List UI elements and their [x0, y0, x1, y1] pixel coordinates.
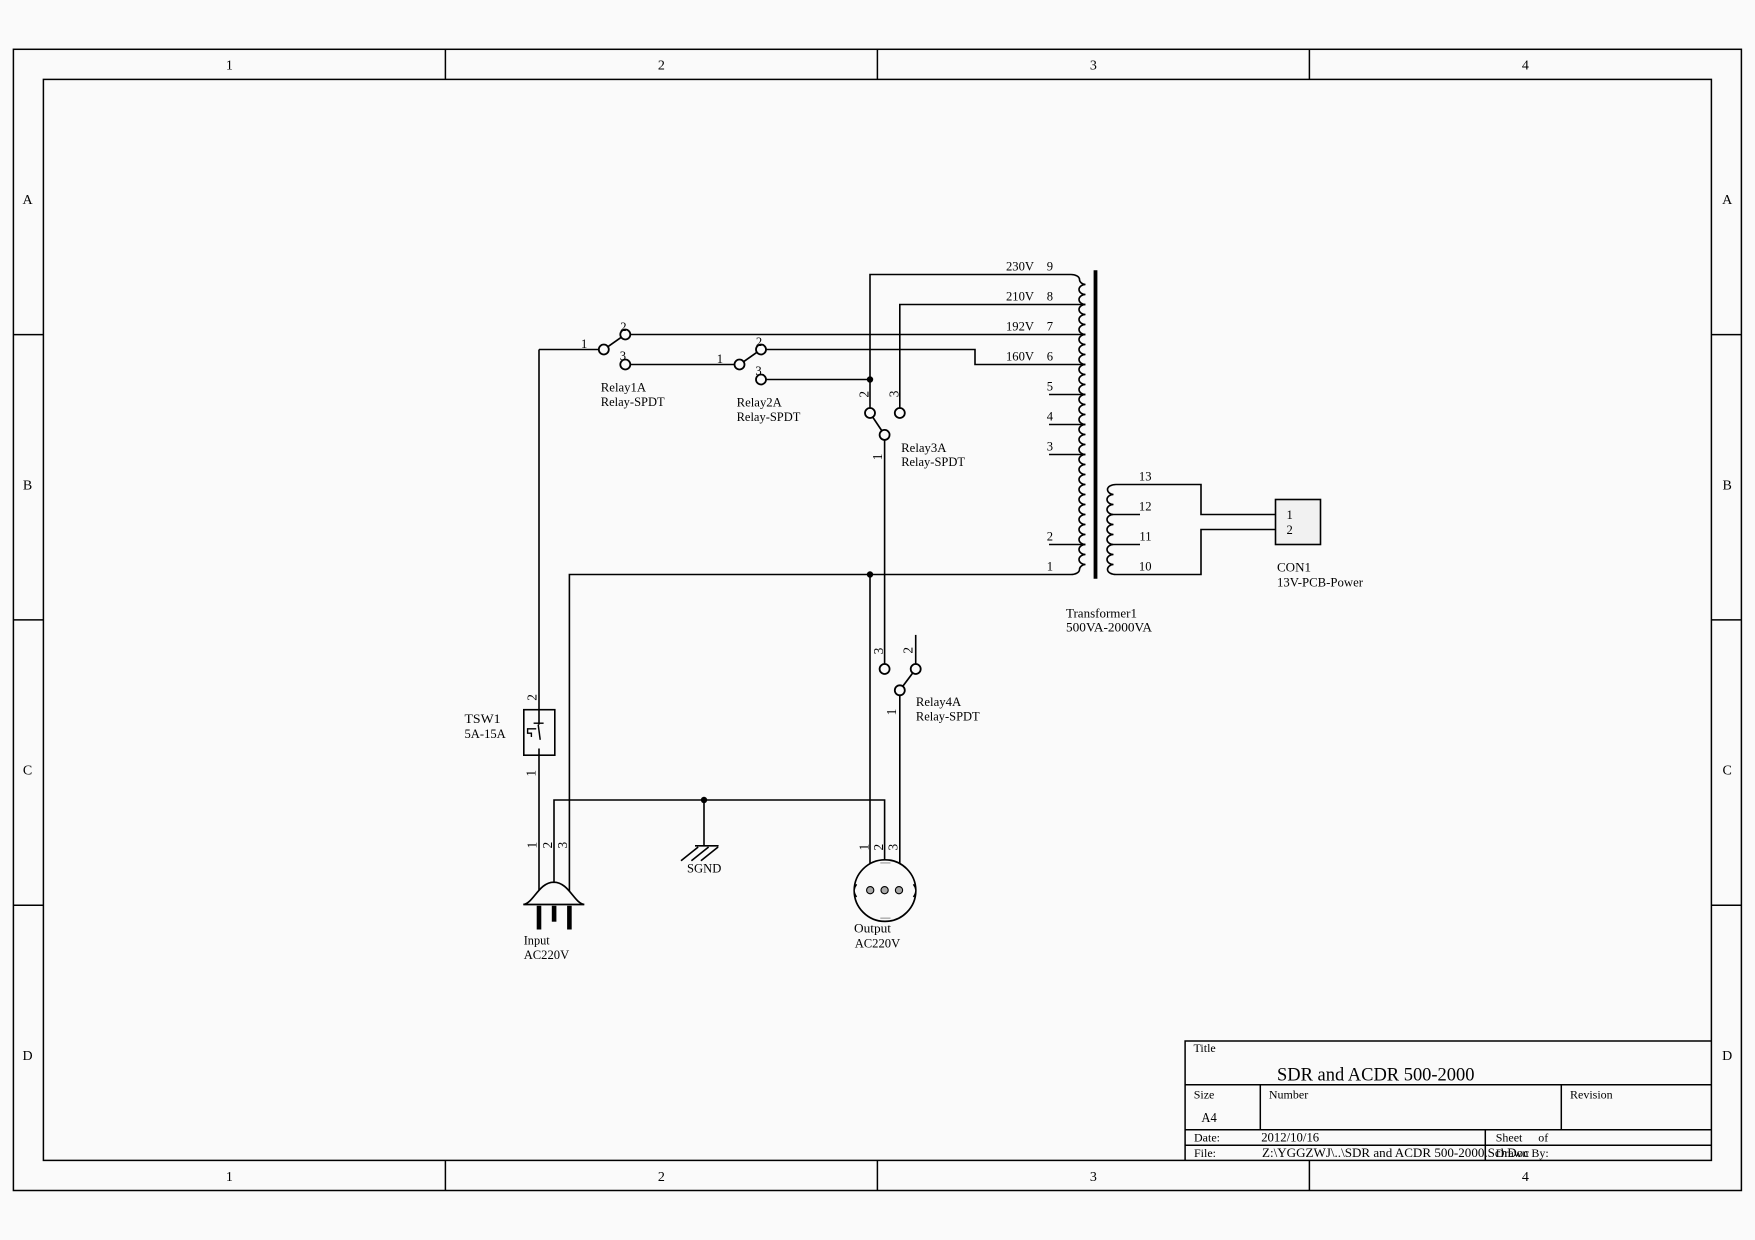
svg-text:3: 3 — [1090, 1170, 1097, 1185]
svg-text:1: 1 — [1287, 508, 1293, 522]
svg-text:160V: 160V — [1006, 350, 1034, 364]
svg-text:11: 11 — [1139, 530, 1151, 544]
svg-text:Relay-SPDT: Relay-SPDT — [737, 410, 801, 424]
svg-text:Relay1A: Relay1A — [601, 381, 646, 395]
svg-text:B: B — [1723, 478, 1732, 493]
svg-text:5: 5 — [1047, 380, 1053, 394]
svg-text:Number: Number — [1269, 1087, 1308, 1101]
svg-text:Z:\YGGZWJ\..\SDR and ACDR 500-: Z:\YGGZWJ\..\SDR and ACDR 500-2000.SchDo… — [1262, 1146, 1529, 1160]
svg-text:Relay3A: Relay3A — [901, 441, 946, 455]
svg-text:Transformer1: Transformer1 — [1066, 606, 1137, 620]
svg-text:1: 1 — [581, 337, 587, 351]
svg-text:Output: Output — [854, 921, 892, 935]
svg-text:Relay-SPDT: Relay-SPDT — [901, 455, 965, 469]
svg-text:4: 4 — [1522, 1170, 1529, 1185]
svg-text:10: 10 — [1139, 560, 1152, 574]
svg-text:Size: Size — [1194, 1087, 1215, 1101]
svg-text:1: 1 — [856, 844, 871, 851]
svg-text:3: 3 — [887, 390, 902, 397]
svg-text:12: 12 — [1139, 500, 1152, 514]
svg-text:1: 1 — [523, 770, 538, 777]
svg-text:2: 2 — [900, 647, 915, 654]
svg-text:Relay2A: Relay2A — [737, 396, 782, 410]
svg-text:2: 2 — [540, 842, 555, 849]
svg-text:4: 4 — [1522, 58, 1529, 73]
svg-text:2: 2 — [871, 844, 886, 851]
svg-text:8: 8 — [1047, 290, 1053, 304]
svg-text:2: 2 — [1047, 530, 1053, 544]
svg-text:Revision: Revision — [1570, 1087, 1613, 1101]
svg-text:Relay-SPDT: Relay-SPDT — [601, 395, 665, 409]
svg-text:SDR and ACDR 500-2000: SDR and ACDR 500-2000 — [1277, 1065, 1475, 1086]
svg-text:3: 3 — [885, 844, 900, 851]
svg-text:A: A — [1722, 193, 1733, 208]
svg-text:230V: 230V — [1006, 260, 1034, 274]
svg-text:D: D — [23, 1049, 33, 1064]
svg-text:AC220V: AC220V — [524, 948, 569, 962]
svg-text:13V-PCB-Power: 13V-PCB-Power — [1277, 575, 1364, 589]
svg-text:B: B — [23, 478, 32, 493]
svg-text:1: 1 — [717, 352, 723, 366]
svg-text:210V: 210V — [1006, 290, 1034, 304]
svg-text:2: 2 — [658, 1170, 665, 1185]
svg-text:13: 13 — [1139, 470, 1152, 484]
svg-text:3: 3 — [1047, 440, 1053, 454]
svg-text:6: 6 — [1047, 350, 1053, 364]
svg-text:Relay-SPDT: Relay-SPDT — [916, 710, 980, 724]
svg-text:Input: Input — [524, 934, 550, 948]
svg-text:4: 4 — [1047, 410, 1054, 424]
svg-text:C: C — [23, 764, 32, 779]
svg-text:D: D — [1722, 1049, 1732, 1064]
svg-text:3: 3 — [620, 349, 626, 363]
svg-text:1: 1 — [226, 58, 233, 73]
svg-text:2: 2 — [524, 694, 539, 701]
svg-text:File:: File: — [1194, 1146, 1216, 1160]
svg-text:of: of — [1538, 1131, 1548, 1145]
svg-text:2: 2 — [756, 335, 762, 349]
svg-text:TSW1: TSW1 — [465, 712, 501, 726]
svg-text:192V: 192V — [1006, 320, 1034, 334]
svg-text:CON1: CON1 — [1277, 560, 1311, 574]
svg-text:2012/10/16: 2012/10/16 — [1261, 1131, 1320, 1145]
svg-text:2: 2 — [620, 320, 626, 334]
svg-text:A: A — [23, 193, 34, 208]
svg-text:500VA-2000VA: 500VA-2000VA — [1066, 621, 1152, 635]
svg-text:A4: A4 — [1201, 1110, 1217, 1125]
svg-text:Title: Title — [1194, 1041, 1216, 1055]
svg-text:5A-15A: 5A-15A — [465, 727, 506, 741]
svg-text:3: 3 — [871, 647, 886, 654]
svg-text:1: 1 — [1047, 560, 1053, 574]
svg-text:2: 2 — [857, 391, 872, 398]
svg-text:2: 2 — [658, 58, 665, 73]
svg-text:Relay4A: Relay4A — [916, 695, 961, 709]
svg-text:3: 3 — [1090, 58, 1097, 73]
svg-text:2: 2 — [1287, 523, 1293, 537]
svg-text:C: C — [1723, 764, 1732, 779]
svg-text:7: 7 — [1047, 320, 1053, 334]
svg-text:9: 9 — [1047, 260, 1053, 274]
svg-text:Date:: Date: — [1194, 1131, 1220, 1145]
svg-text:3: 3 — [755, 364, 761, 378]
svg-text:Sheet: Sheet — [1496, 1131, 1523, 1145]
svg-text:1: 1 — [226, 1170, 233, 1185]
svg-text:3: 3 — [555, 842, 570, 849]
svg-text:AC220V: AC220V — [855, 936, 900, 950]
svg-text:1: 1 — [525, 842, 540, 849]
svg-text:SGND: SGND — [687, 862, 721, 876]
svg-text:1: 1 — [884, 709, 899, 716]
svg-text:1: 1 — [870, 453, 885, 460]
